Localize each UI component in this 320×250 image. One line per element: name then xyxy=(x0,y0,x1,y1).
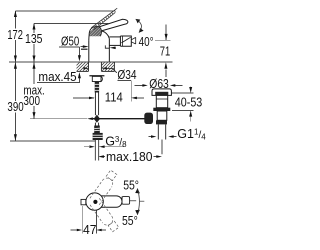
svg-text:172: 172 xyxy=(7,28,23,42)
svg-text:40°: 40° xyxy=(139,35,154,49)
svg-text:390: 390 xyxy=(7,100,23,114)
svg-text:71: 71 xyxy=(160,44,171,58)
svg-text:135: 135 xyxy=(25,32,43,46)
svg-text:114: 114 xyxy=(105,91,123,105)
svg-text:55°: 55° xyxy=(122,214,138,228)
svg-text:Ø63: Ø63 xyxy=(149,77,169,91)
svg-text:300: 300 xyxy=(23,94,40,108)
svg-text:Ø50: Ø50 xyxy=(61,35,79,49)
svg-text:max.45: max.45 xyxy=(38,70,76,84)
svg-text:G11/4: G11/4 xyxy=(177,127,206,142)
svg-text:40-53: 40-53 xyxy=(175,95,203,109)
svg-text:max.180: max.180 xyxy=(106,150,153,164)
svg-text:55°: 55° xyxy=(123,178,139,192)
svg-text:Ø34: Ø34 xyxy=(117,68,136,82)
svg-text:47: 47 xyxy=(83,223,97,237)
